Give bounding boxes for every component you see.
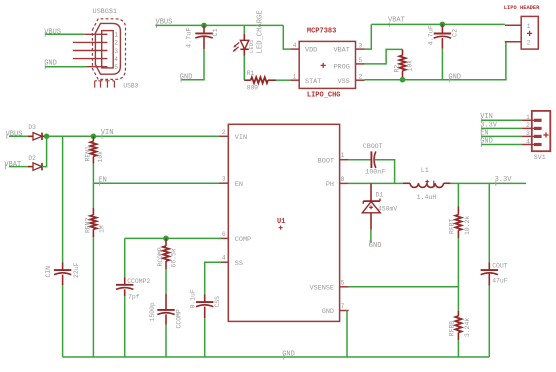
svg-text:2: 2 xyxy=(114,40,118,47)
svg-text:1500p: 1500p xyxy=(149,302,156,321)
svg-text:4: 4 xyxy=(526,138,530,145)
svg-text:U1: U1 xyxy=(277,218,285,226)
wire EN rail xyxy=(93,182,221,184)
svg-text:4: 4 xyxy=(222,255,226,262)
wire R1 to STAT xyxy=(276,79,290,81)
svg-text:10k: 10k xyxy=(97,151,104,163)
wire VBUS rail (charger) xyxy=(156,24,284,26)
svg-text:CBOOT: CBOOT xyxy=(363,143,383,150)
net label 3.3V (SV1) xyxy=(480,121,498,131)
svg-text:3: 3 xyxy=(222,176,226,183)
wire CBOOT to PH xyxy=(375,160,395,184)
svg-text:0.1uF: 0.1uF xyxy=(190,289,197,308)
svg-text:USB3: USB3 xyxy=(123,83,138,90)
wire D1 to GND xyxy=(370,230,372,244)
net label EN (buck) xyxy=(98,176,106,185)
wire VSENSE xyxy=(349,286,459,288)
svg-text:6: 6 xyxy=(222,231,226,238)
svg-text:COUT: COUT xyxy=(492,263,508,270)
svg-text:C1: C1 xyxy=(212,28,220,36)
svg-text:3: 3 xyxy=(359,42,363,49)
wire 3.3V to COUT xyxy=(488,183,490,262)
junction COMP/RCOMP xyxy=(163,236,169,242)
svg-text:C2: C2 xyxy=(452,29,460,37)
svg-text:GND: GND xyxy=(322,308,334,316)
svg-text:2: 2 xyxy=(222,129,226,136)
resistor R2 10k xyxy=(393,49,413,79)
wire COMP xyxy=(125,237,221,239)
svg-text:RFBT: RFBT xyxy=(448,218,455,234)
wire GND to SV1 pin4 xyxy=(481,144,522,146)
svg-text:10k: 10k xyxy=(407,60,414,72)
net label VBAT (rail) xyxy=(388,17,405,27)
svg-text:R1: R1 xyxy=(247,70,255,77)
svg-text:VIN: VIN xyxy=(101,129,114,137)
svg-text:PROG: PROG xyxy=(333,64,349,72)
svg-text:EN: EN xyxy=(235,181,243,189)
svg-text:RCOMP: RCOMP xyxy=(157,247,164,266)
svg-text:8: 8 xyxy=(341,176,345,183)
svg-text:GND: GND xyxy=(180,73,193,81)
svg-text:7: 7 xyxy=(341,303,345,310)
svg-text:RFBB: RFBB xyxy=(448,321,455,337)
svg-text:MCP7383: MCP7383 xyxy=(307,27,336,35)
wire 3.3V to RFBT xyxy=(457,183,459,206)
svg-text:100nF: 100nF xyxy=(365,169,385,176)
wire RCOMP to CCOMP xyxy=(165,269,167,294)
svg-text:D1: D1 xyxy=(376,191,384,198)
svg-text:1: 1 xyxy=(341,152,345,159)
capacitor CCOMP 1500p xyxy=(149,294,183,329)
wire VBUS to USB3 pin1 xyxy=(45,33,84,35)
wire PH rail xyxy=(349,182,403,184)
svg-text:2: 2 xyxy=(527,40,531,47)
svg-text:5: 5 xyxy=(114,64,118,71)
svg-text:LED_CHARGE: LED_CHARGE xyxy=(257,10,265,53)
svg-text:PH: PH xyxy=(326,181,334,189)
junction VBUS/C1 xyxy=(201,23,207,29)
svg-text:5: 5 xyxy=(359,57,363,64)
svg-text:3.3V: 3.3V xyxy=(495,176,513,184)
wire VIN rail xyxy=(47,135,221,137)
svg-text:GND: GND xyxy=(448,73,461,81)
net label GND (bottom rail) xyxy=(282,351,295,360)
wire VBAT pin3 up xyxy=(365,24,372,49)
wire CCOMP2 to GND rail xyxy=(124,296,126,357)
wire PROG to R2 xyxy=(365,49,403,64)
junction VIN/REN1 xyxy=(91,134,97,140)
wire VSS GND rail xyxy=(365,42,506,80)
svg-text:VBAT: VBAT xyxy=(333,47,349,55)
wire LED1 to R1 xyxy=(243,56,245,80)
svg-text:47uF: 47uF xyxy=(492,278,508,285)
svg-text:SV1: SV1 xyxy=(534,154,546,161)
wire VBUS to LED1 xyxy=(243,25,245,33)
svg-text:STAT: STAT xyxy=(305,78,321,86)
capacitor CCOMP2 7pf xyxy=(116,278,150,301)
diode D2 xyxy=(28,155,42,170)
connector USB3 (mini-USB) xyxy=(73,8,139,90)
svg-text:VDD: VDD xyxy=(305,47,317,55)
wire 3.3V rail xyxy=(451,182,526,184)
wire COMP to CCOMP2 xyxy=(124,238,126,277)
wire RFBT to RFBB xyxy=(457,238,459,311)
svg-text:4: 4 xyxy=(293,42,297,49)
svg-text:L1: L1 xyxy=(421,167,429,174)
wire VIN to SV1 pin1 xyxy=(481,119,522,121)
wire 3.3V to SV1 pin2 xyxy=(481,127,522,129)
svg-text:R2: R2 xyxy=(393,65,400,73)
svg-text:2: 2 xyxy=(526,122,530,129)
resistor RCOMP 66.5k xyxy=(157,238,177,269)
wire COUT to GND rail xyxy=(488,286,490,357)
net label GND (D1) xyxy=(369,240,382,250)
svg-text:VBUS: VBUS xyxy=(44,28,61,36)
svg-text:GND: GND xyxy=(282,351,295,359)
svg-text:22uF: 22uF xyxy=(73,262,80,278)
svg-text:LIPO HEADER: LIPO HEADER xyxy=(504,5,540,11)
resistor REN2 1M xyxy=(84,183,105,237)
net label VBUS (charger) xyxy=(156,19,173,28)
net label GND (charger rail) xyxy=(448,73,461,82)
svg-text:CCOMP: CCOMP xyxy=(175,309,182,328)
svg-text:VBUS: VBUS xyxy=(6,130,23,138)
svg-text:SS: SS xyxy=(235,260,243,268)
capacitor CBOOT 100nF xyxy=(363,143,385,175)
resistor RFBT 10.2k xyxy=(448,207,471,239)
svg-text:VSS: VSS xyxy=(338,78,350,86)
connector LIPO HEADER xyxy=(504,5,540,49)
svg-text:VBAT: VBAT xyxy=(388,17,405,25)
wire GND to USB3 pin5 xyxy=(45,66,86,68)
net label VIN (SV1) xyxy=(480,113,493,123)
resistor RFBB 3.24k xyxy=(448,311,471,340)
svg-text:VIN: VIN xyxy=(235,134,247,142)
wire VBAT rail xyxy=(371,23,505,25)
svg-text:800: 800 xyxy=(247,84,258,91)
svg-text:VSENSE: VSENSE xyxy=(310,284,334,292)
svg-text:3.24k: 3.24k xyxy=(464,318,471,337)
junction D3/D2/VIN xyxy=(44,134,50,140)
capacitor CIN 22uF xyxy=(45,262,80,285)
LED LED1 xyxy=(233,10,265,55)
junction VBAT/C2 xyxy=(440,22,446,28)
wire SS to CSS xyxy=(205,262,221,294)
svg-text:1: 1 xyxy=(114,32,118,39)
svg-text:3: 3 xyxy=(114,48,118,55)
svg-text:7pf: 7pf xyxy=(128,294,140,301)
capacitor C1 4.7uF xyxy=(186,25,220,49)
svg-text:GND: GND xyxy=(369,242,382,250)
capacitor COUT 47uF xyxy=(481,262,508,286)
wire VBAT to D2 xyxy=(9,166,28,168)
svg-text:CIN: CIN xyxy=(45,266,52,278)
svg-text:66.5k: 66.5k xyxy=(170,248,177,267)
svg-text:D3: D3 xyxy=(28,124,36,131)
svg-text:USBG$1: USBG$1 xyxy=(93,8,117,16)
svg-text:3: 3 xyxy=(526,130,530,137)
net label VBUS (buck) xyxy=(6,130,23,139)
svg-text:CSS: CSS xyxy=(214,296,221,308)
svg-text:CCOMP2: CCOMP2 xyxy=(127,278,150,285)
capacitor C2 4.7uF xyxy=(428,24,460,48)
wire D2 to VIN junction xyxy=(42,136,47,166)
net label VIN (buck) xyxy=(101,129,114,139)
net label GND (USB) xyxy=(44,60,57,70)
capacitor CSS 0.1uF xyxy=(190,289,222,318)
wire CSS to GND rail xyxy=(204,318,206,357)
wire GND rail (bottom) xyxy=(63,356,490,358)
wire VBUS to VDD pin4 xyxy=(283,25,290,49)
diode D1 450mV xyxy=(362,183,397,229)
net label 3.3V (rail) xyxy=(495,176,513,186)
junction R2/GND xyxy=(400,77,406,83)
svg-text:4.7uF: 4.7uF xyxy=(428,25,436,45)
connector SV1 xyxy=(522,111,550,161)
wire EN to SV1 pin3 xyxy=(481,135,522,137)
net label GND (SV1) xyxy=(480,138,493,148)
wire VIN to CIN xyxy=(62,136,64,262)
wire VBUS to D3 xyxy=(9,135,28,137)
wire RFBB to GND rail xyxy=(457,340,459,357)
net label VBUS (USB) xyxy=(44,28,61,37)
svg-text:REN1: REN1 xyxy=(84,146,91,162)
svg-text:10.2k: 10.2k xyxy=(464,216,471,235)
svg-text:REN2: REN2 xyxy=(84,217,91,233)
svg-text:4.7uF: 4.7uF xyxy=(186,28,194,48)
svg-text:450mV: 450mV xyxy=(378,205,397,212)
svg-text:1: 1 xyxy=(527,23,531,30)
wire BOOT to CBOOT xyxy=(349,159,371,161)
svg-text:LIPO_CHG: LIPO_CHG xyxy=(307,92,341,100)
net label GND (C1) xyxy=(180,73,193,82)
wire REN1 to EN xyxy=(92,164,94,184)
resistor R1 800 xyxy=(244,70,276,91)
wire C2 to GND rail xyxy=(441,49,443,80)
diode D3 xyxy=(28,124,47,140)
svg-text:1.4uH: 1.4uH xyxy=(417,194,437,201)
svg-text:BOOT: BOOT xyxy=(318,157,334,165)
resistor REN1 10k xyxy=(84,136,104,163)
wire CCOMP to GND rail xyxy=(165,325,167,357)
svg-text:LED1: LED1 xyxy=(248,39,255,53)
IC U1 buck regulator xyxy=(219,124,348,321)
inductor L1 1.4uH xyxy=(403,167,451,201)
net label EN (SV1) xyxy=(480,129,488,139)
net label VBAT (buck) xyxy=(4,161,21,169)
svg-text:4: 4 xyxy=(114,56,118,63)
IC MCP7383 LIPO_CHG xyxy=(290,27,364,99)
svg-text:2: 2 xyxy=(359,74,363,81)
svg-text:1: 1 xyxy=(526,114,530,121)
wire REN2 to GND rail xyxy=(92,237,94,357)
wire CIN to GND rail xyxy=(62,285,64,357)
wire U1 GND pin7 down xyxy=(346,311,348,358)
svg-text:1: 1 xyxy=(293,73,297,80)
svg-text:1M: 1M xyxy=(99,225,106,233)
svg-text:COMP: COMP xyxy=(235,236,251,244)
svg-text:VBAT: VBAT xyxy=(4,161,21,169)
wire C1 to GND xyxy=(181,49,204,80)
svg-text:5: 5 xyxy=(341,279,345,286)
svg-text:D2: D2 xyxy=(28,155,36,162)
